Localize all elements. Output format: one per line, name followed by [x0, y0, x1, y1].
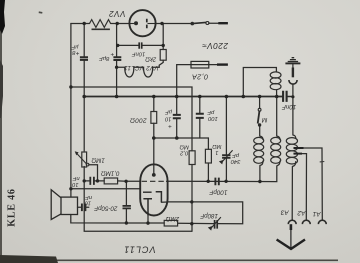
svg-text:nF: nF [85, 194, 92, 200]
screen grid dash [143, 191, 152, 193]
mains switch [191, 22, 209, 26]
wire coil2 top [276, 97, 278, 137]
node chassis bus / R-200 top [152, 95, 156, 99]
svg-text:8µF: 8µF [99, 55, 110, 61]
node mains rail / cap C-8uF-a branch [83, 22, 86, 25]
tube VCL11 [140, 164, 167, 215]
speaker [51, 190, 77, 220]
svg-text:340: 340 [230, 158, 240, 164]
capacitor 10uF [173, 115, 181, 118]
capacitor 100pF anode [196, 114, 204, 118]
antenna coil primary [270, 72, 281, 90]
wire fuse drop [176, 65, 178, 138]
node snubber wire / R-2k top [162, 44, 165, 47]
svg-text:2kΩ: 2kΩ [145, 56, 157, 62]
wire 10nF branch [117, 24, 164, 46]
capacitor 340pF variable [219, 150, 233, 164]
node chassis bus / switch M [258, 95, 262, 99]
node snubber wire left [116, 44, 119, 47]
node grid wire / coil L1 bottom [258, 180, 261, 183]
wire B vertical mid [83, 60, 85, 151]
ground symbol [285, 58, 300, 78]
wire B vertical lower [84, 167, 192, 232]
capacitor 10nF grid [90, 177, 94, 185]
svg-text:0,1MΩ: 0,1MΩ [101, 170, 120, 177]
node grid wire / C-340pF bottom [224, 180, 227, 183]
node chassis bus / fuse drop [175, 95, 179, 99]
svg-text:200Ω: 200Ω [130, 117, 148, 124]
svg-text:10: 10 [71, 181, 78, 187]
wire anode T leg exit [161, 201, 167, 203]
node grid wire / pot wiper [96, 179, 99, 182]
wire screen stub y188.8 [71, 188, 140, 190]
wire cathode leg [147, 215, 149, 223]
node grid wire / volume pot track [83, 179, 86, 182]
cathode [143, 199, 152, 216]
node earth lead / coil L3 top [291, 95, 294, 98]
svg-text:0,2: 0,2 [179, 150, 188, 156]
terminal A2 [302, 220, 310, 224]
wire cathode rail y223 [71, 202, 243, 224]
svg-text:A1: A1 [312, 210, 321, 217]
svg-text:0,2A: 0,2A [192, 72, 208, 81]
wire B vertical upper [83, 24, 85, 57]
svg-text:1MΩ: 1MΩ [91, 156, 105, 163]
wire trimmer vertical [125, 181, 127, 223]
svg-text:1: 1 [215, 149, 218, 155]
fuse 0.2A [191, 61, 209, 68]
node grid wire / trimmer branch [124, 180, 127, 183]
wire tap A2 [294, 154, 307, 220]
svg-text:10: 10 [164, 115, 171, 121]
svg-text:A3: A3 [280, 208, 289, 215]
wire 0.2M vertical [191, 165, 193, 232]
capacitor 10nF mains [283, 91, 287, 102]
svg-text:10nF: 10nF [281, 103, 296, 110]
svg-text:MΩ: MΩ [179, 143, 189, 149]
svg-text:pF: pF [232, 152, 240, 158]
svg-text:VV2 VCL11: VV2 VCL11 [124, 64, 159, 71]
terminal A1 [318, 220, 326, 224]
node mains rail / filter branch [116, 22, 119, 25]
wire bus to ground junction [287, 96, 293, 98]
wire M to coil1 [259, 126, 261, 136]
wire fuse line [177, 64, 217, 66]
node chassis bus / coil L2 [275, 95, 279, 99]
wire M switch top [259, 97, 261, 109]
svg-text:pF: pF [207, 109, 215, 115]
capacitor 8uF second [113, 57, 121, 60]
wire ground hook lead [292, 84, 294, 97]
wire grid rail right [167, 166, 276, 182]
node chassis bus / antenna coil return [242, 95, 246, 99]
mains pin bottom [217, 63, 228, 65]
wire speaker cap stub [78, 206, 89, 208]
wire 200R branch [153, 97, 155, 139]
wire tap A1 [294, 148, 322, 219]
resistor dropper zigzag [90, 20, 111, 30]
node HT rail / screen rail [69, 85, 72, 88]
svg-text:MΩ: MΩ [212, 143, 222, 149]
node rectifier output [160, 22, 163, 25]
bus chassis y96.5 [84, 96, 282, 98]
svg-text:220V≈: 220V≈ [202, 41, 229, 50]
svg-text:2MΩ: 2MΩ [166, 215, 181, 222]
wire 2k to heater jog [159, 45, 163, 67]
coil 2 [271, 136, 281, 166]
wire coil3 to A3 [291, 167, 293, 220]
tick on A1 wire [320, 161, 325, 163]
coil 3 tapped [286, 135, 297, 167]
wire tube cap stem [153, 164, 155, 174]
wire screen rail y87 [71, 87, 192, 151]
wire 100pF vertical [199, 97, 201, 139]
wire pot wiper [89, 165, 98, 181]
svg-text:+: + [168, 122, 172, 129]
capacitor 10nF speaker [82, 204, 86, 212]
node chassis bus / filter branch [115, 95, 119, 99]
svg-text:M: M [261, 116, 267, 123]
capacitor 180pF variable [208, 217, 221, 231]
svg-text:µF: µF [71, 44, 78, 50]
wire coil1 bottom [259, 166, 261, 182]
node chassis bus / C-100pF-a top [198, 95, 202, 99]
terminal A3 [288, 219, 296, 224]
node grid wire / R-1M-b bottom [207, 180, 210, 183]
switch M [258, 108, 262, 126]
resistor 2k [160, 50, 166, 61]
svg-text:100pF: 100pF [208, 188, 227, 195]
wire mains switch to pin [209, 22, 219, 24]
resistor 2M [164, 220, 177, 226]
wire 1M second bottom [207, 163, 209, 181]
wire top rail [71, 23, 192, 25]
svg-text:VV2: VV2 [109, 9, 126, 18]
wire antenna coil loop [243, 68, 276, 97]
resistor 1M second [205, 149, 211, 163]
node triode anode wire [190, 200, 193, 203]
svg-text:100: 100 [207, 115, 217, 121]
svg-text:µF: µF [165, 109, 172, 115]
wire A left vertical [70, 24, 72, 198]
node cathode rail / trimmer bottom [125, 221, 128, 224]
resistor 200R [151, 112, 157, 124]
heater chain humps [117, 67, 160, 77]
svg-text:180pF: 180pF [199, 212, 218, 219]
wire grid rail y181.3 [84, 180, 140, 182]
svg-text:A2: A2 [297, 209, 306, 216]
node cathode rail / cathode leg [146, 221, 149, 224]
svg-text:+: + [110, 51, 114, 58]
resistor 0.1M [104, 178, 117, 184]
wire coil3 top [292, 97, 294, 135]
node HT rail / screen stub [69, 187, 72, 190]
svg-text:KLE 46: KLE 46 [7, 188, 18, 226]
antenna symbol [277, 224, 305, 249]
node anode bus / C-10uF bottom [175, 136, 179, 140]
svg-text:10: 10 [84, 200, 91, 206]
coil3 tap stubs [294, 148, 304, 154]
svg-text:VCL11: VCL11 [123, 245, 155, 255]
wire 340pF vertical [225, 97, 227, 182]
capacitor 10nF rectifier [139, 42, 142, 48]
resistor 0.2M [189, 151, 195, 165]
svg-text:+: + [75, 49, 79, 56]
svg-text:20-50pF: 20-50pF [93, 204, 118, 211]
mains pin top [218, 22, 228, 24]
node chassis bus / C-340pF top [225, 95, 229, 99]
ground plug hook [289, 80, 297, 84]
coil 1 [254, 136, 264, 166]
svg-text:10nF: 10nF [132, 51, 146, 57]
node chassis bus / cap C-8uF-a [82, 95, 86, 99]
trimmer 20-50pF [123, 206, 131, 209]
rectifier tube VY2 [129, 10, 155, 36]
node heater chain left [115, 66, 118, 69]
wire anode bus y138 [154, 138, 209, 149]
wire antenna coil bottom [276, 90, 278, 97]
grid dashes [142, 180, 168, 182]
wire heater node vertical [116, 24, 118, 97]
node cathode rail / R-0.2M wire [190, 222, 193, 225]
capacitor 8uF B [80, 57, 88, 60]
potentiometer 1M [75, 151, 89, 167]
capacitor 100pF grid [215, 178, 218, 186]
triode anode [156, 192, 162, 202]
wire tube top feed [153, 138, 155, 165]
svg-text:nF: nF [72, 175, 79, 181]
node anode bus / R-200 bottom [152, 136, 156, 140]
